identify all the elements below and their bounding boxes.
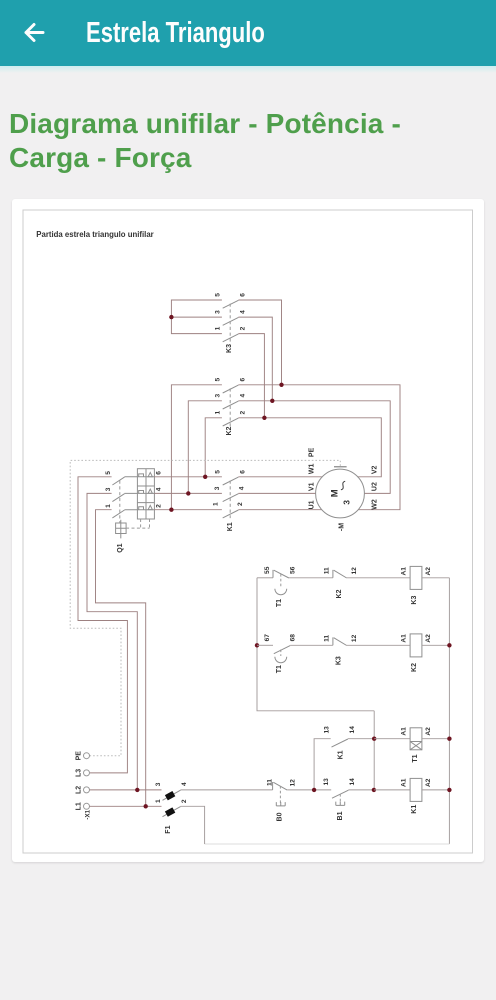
svg-text:A1: A1: [400, 634, 407, 643]
contactor K3 pole 3-4: [214, 310, 246, 325]
svg-text:3: 3: [214, 486, 221, 490]
contactor K1 pole 5-6: [215, 470, 247, 485]
svg-text:3: 3: [214, 394, 221, 398]
svg-text:U2: U2: [372, 482, 379, 491]
rung 2: wire rail to T1-67: [257, 644, 273, 646]
wire F1-4 to B0: [181, 789, 273, 791]
svg-text:K3: K3: [411, 596, 418, 605]
wire node X to coil K1: [374, 789, 410, 791]
svg-text:W2: W2: [372, 499, 379, 510]
junction right rail rung 4: [447, 788, 451, 792]
svg-text:6: 6: [156, 471, 163, 475]
svg-text:-X1: -X1: [84, 809, 91, 819]
push button B0 (NC stop): [266, 779, 296, 822]
svg-text:14: 14: [349, 726, 356, 734]
junction left rail rung 2: [255, 643, 259, 647]
svg-text:12: 12: [351, 567, 358, 575]
svg-text:4: 4: [240, 310, 247, 314]
svg-text:1: 1: [214, 411, 221, 415]
terminal L3: [75, 769, 89, 777]
junction row3 / K2 feed: [169, 508, 173, 512]
svg-text:B1: B1: [337, 811, 344, 820]
wire L1 supply riser to Q1-1: [96, 510, 146, 807]
svg-text:A2: A2: [425, 634, 432, 643]
wire B0-12 to junction: [287, 789, 331, 791]
svg-text:B0: B0: [276, 812, 283, 821]
coil K3: [400, 566, 432, 604]
wire phase L2 tap to K2 pole 3: [188, 401, 222, 494]
svg-text:1: 1: [155, 799, 162, 803]
wire K1-4 to motor V1: [238, 492, 315, 494]
K1 mechanical linkage: [229, 481, 231, 519]
svg-text:3: 3: [105, 487, 112, 491]
timer contact T1 67-68 (NO delayed): [264, 634, 296, 674]
svg-text:67: 67: [264, 634, 271, 642]
svg-text:13: 13: [324, 726, 331, 734]
svg-text:K3: K3: [335, 656, 342, 665]
svg-text:K1: K1: [411, 805, 418, 814]
wire L2 terminal to F1-3: [90, 789, 162, 791]
K2 mechanical linkage: [229, 388, 231, 426]
svg-text:W1: W1: [308, 464, 315, 475]
contactor K3 pole 1-2: [214, 326, 246, 341]
svg-text:A1: A1: [400, 778, 407, 787]
svg-text:K1: K1: [227, 522, 234, 531]
wire coil T1 to right rail: [422, 738, 450, 740]
schematic card: [12, 199, 484, 862]
svg-text:11: 11: [324, 567, 331, 574]
svg-text:1: 1: [214, 326, 221, 330]
wire B1-14 to node X: [348, 789, 374, 791]
junction K3/K2 net V2: [262, 416, 266, 420]
contactor K3 pole 5-6: [214, 293, 246, 308]
svg-text:M: M: [329, 489, 340, 497]
wire node X to coil T1: [374, 738, 410, 740]
svg-text:5: 5: [215, 470, 222, 474]
push button B1 (NO start): [323, 778, 356, 821]
svg-text:6: 6: [240, 470, 247, 474]
wire coil K3 to right rail: [422, 577, 450, 579]
svg-text:PE: PE: [75, 751, 82, 761]
wire K3-2 to K2 right (net V2): [238, 334, 264, 418]
wire node X riser: [373, 711, 375, 790]
svg-text:68: 68: [289, 634, 296, 642]
back arrow icon: [14, 12, 54, 52]
svg-text:K2: K2: [411, 663, 418, 672]
terminal PE: [75, 751, 89, 761]
contact K2 11-12 (NC interlock): [324, 567, 358, 599]
wire T1-68 to K3-11: [290, 644, 333, 646]
wire Q1-4 to K1-3 (row 2): [154, 492, 222, 494]
wire PE (dotted) to motor: [70, 460, 340, 755]
svg-text:6: 6: [240, 293, 247, 297]
svg-text:2: 2: [181, 799, 188, 803]
svg-text:2: 2: [240, 326, 247, 330]
wire Q1-6 to K1-5 (row 1): [154, 476, 222, 478]
junction K3/K2 net W2: [279, 383, 283, 387]
svg-text:V1: V1: [308, 482, 315, 491]
svg-text:3: 3: [214, 310, 221, 314]
junction right rail rung 2: [447, 643, 451, 647]
svg-text:L1: L1: [75, 802, 82, 810]
svg-text:13: 13: [323, 778, 330, 786]
junction right rail rung 3: [447, 737, 451, 741]
junction L2 riser: [135, 788, 139, 792]
svg-text:4: 4: [181, 782, 188, 786]
svg-text:Partida estrela triangulo unif: Partida estrela triangulo unifilar: [36, 230, 153, 239]
wire Q1-2 to K1-1 (row 3): [154, 509, 222, 511]
heading: [9, 107, 487, 176]
svg-text:12: 12: [351, 634, 358, 642]
svg-text:F1: F1: [165, 825, 172, 833]
junction L1 riser: [144, 804, 148, 808]
junction row1 / K2 feed: [203, 475, 207, 479]
svg-text:A1: A1: [400, 567, 407, 576]
svg-text:A1: A1: [400, 727, 407, 736]
svg-text:14: 14: [349, 778, 356, 786]
svg-text:5: 5: [214, 378, 221, 382]
wire K1-14 to node X: [348, 738, 374, 740]
svg-text:2: 2: [240, 411, 247, 415]
contactor K2 pole 3-4: [214, 394, 246, 409]
wire K2-2 to motor V2: [238, 418, 381, 477]
coil T1 (timer): [400, 727, 432, 763]
K3 mechanical linkage: [229, 304, 231, 342]
junction B1 / seal branch: [312, 788, 316, 792]
svg-text:3: 3: [341, 500, 351, 505]
svg-text:T1: T1: [412, 754, 419, 762]
contact K3 11-12 (NC interlock): [324, 634, 358, 665]
wire coil K2 to right rail: [422, 644, 450, 646]
wire F1-2 down to return: [181, 806, 205, 844]
wire K1-6 to motor W1: [238, 476, 322, 478]
motor M 3~: [308, 447, 378, 531]
svg-text:11: 11: [266, 779, 273, 786]
wire K3-12 to coil K2: [347, 644, 410, 646]
svg-text:K1: K1: [337, 750, 344, 759]
wire K2-12 to coil K3: [347, 577, 410, 579]
svg-text:U1: U1: [308, 500, 315, 509]
svg-text:A2: A2: [425, 727, 432, 736]
svg-text:1: 1: [105, 504, 112, 508]
svg-text:A2: A2: [425, 567, 432, 576]
junction node X rung 3: [372, 737, 376, 741]
svg-text:A2: A2: [425, 778, 432, 787]
fuse switch F1 pole 3-4: [155, 782, 188, 800]
wire K3-4 to K2 right (net U2): [238, 317, 272, 401]
svg-text:6: 6: [240, 378, 247, 382]
contactor K1 pole 3-4: [214, 486, 246, 501]
wire L2 supply riser to Q1-3: [87, 493, 137, 790]
wire control left rail: [257, 578, 374, 711]
svg-text:V2: V2: [372, 466, 379, 475]
svg-text:T1: T1: [276, 599, 283, 607]
contactor K1 pole 1-2: [213, 502, 245, 518]
junction K3/K2 net U2: [270, 399, 274, 403]
svg-text:PE: PE: [308, 447, 315, 457]
circuit breaker Q1: [105, 469, 163, 553]
wire K2-4 to motor U2: [238, 401, 390, 494]
wire phase L3 tap to K2 pole 5: [171, 385, 222, 510]
wire K1-2 to motor U1: [238, 509, 321, 511]
svg-text:5: 5: [105, 471, 112, 475]
contactor K2 pole 1-2: [214, 411, 246, 426]
timer contact T1 55-56 (NC delayed): [264, 566, 296, 607]
svg-text:-M: -M: [338, 523, 345, 531]
wire L1 terminal to F1-1: [90, 805, 162, 807]
coil K2: [400, 634, 432, 672]
contact K1 13-14 (seal-in): [324, 726, 356, 760]
svg-text:2: 2: [237, 502, 244, 506]
wire K3 star-point bus: [171, 300, 222, 334]
junction row2 / K2 feed: [186, 491, 190, 495]
terminal L1: [75, 802, 89, 810]
wire K2-6 to motor W2: [238, 385, 400, 510]
wire L3 supply riser to Q1-5: [78, 477, 127, 773]
contactor K2 pole 5-6: [214, 378, 246, 393]
wire seal branch riser: [314, 739, 331, 790]
wire T1-56 to K2-11: [289, 577, 333, 579]
wire phase L1 tap to K2 pole 1: [205, 418, 222, 477]
svg-text:L2: L2: [75, 786, 82, 794]
svg-text:K2: K2: [226, 426, 233, 435]
svg-text:3: 3: [155, 782, 162, 786]
svg-text:1: 1: [213, 502, 220, 506]
svg-text:11: 11: [324, 635, 331, 642]
terminal L2: [75, 786, 89, 794]
wire K3-6 to K2 right (net W2): [238, 300, 281, 385]
coil K1: [400, 778, 432, 813]
wire control right rail: [448, 578, 450, 844]
svg-text:L3: L3: [75, 769, 82, 777]
svg-text:4: 4: [240, 394, 247, 398]
junction node X rung 4: [372, 788, 376, 792]
fuse switch F1 pole 1-2: [155, 799, 188, 817]
svg-text:4: 4: [239, 486, 246, 490]
svg-text:T1: T1: [276, 665, 283, 673]
svg-text:Q1: Q1: [117, 543, 124, 552]
app bar: [0, 0, 496, 66]
svg-text:K2: K2: [336, 589, 343, 598]
svg-text:2: 2: [156, 504, 163, 508]
svg-text:12: 12: [290, 779, 297, 787]
svg-text:56: 56: [289, 566, 296, 574]
svg-text:5: 5: [214, 293, 221, 297]
wire control return bottom: [205, 843, 450, 845]
svg-text:4: 4: [156, 487, 163, 491]
svg-text:55: 55: [264, 566, 271, 574]
wire coil K1 to right rail: [422, 789, 450, 791]
svg-text:K3: K3: [226, 344, 233, 353]
rung 1: wire rail to T1-55: [257, 577, 273, 579]
junction star bus / K3 pole 3: [169, 315, 173, 319]
